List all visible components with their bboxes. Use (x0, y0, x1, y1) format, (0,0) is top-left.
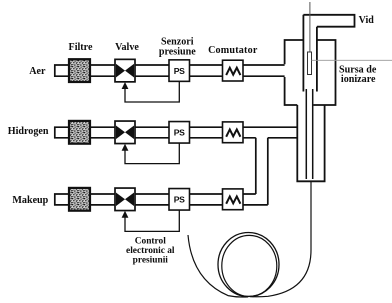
inner tube (306, 89, 312, 179)
source body box (285, 40, 336, 105)
svg-text:PS: PS (174, 66, 185, 76)
svg-text:presiune: presiune (159, 47, 196, 58)
svg-text:PS: PS (174, 128, 185, 138)
svg-text:Vid: Vid (359, 15, 375, 26)
svg-text:Hidrogen: Hidrogen (8, 126, 49, 137)
wire feedback row2 (125, 143, 179, 164)
chimney tube (303, 15, 317, 92)
svg-text:Makeup: Makeup (12, 195, 48, 206)
arrow into valve V2 (122, 144, 129, 151)
svg-text:Filtre: Filtre (69, 42, 93, 53)
svg-text:electronic al: electronic al (126, 246, 175, 256)
arrow into valve V1 (122, 82, 129, 89)
pressure sensor PS2 (169, 122, 190, 144)
pressure sensor PS3 (169, 189, 190, 211)
filter F1 (69, 59, 90, 82)
capillary electrode (309, 2, 311, 57)
svg-text:Valve: Valve (115, 42, 139, 53)
column inlet curve (188, 235, 248, 297)
valve V2 (115, 121, 135, 144)
jet nozzle (308, 52, 312, 75)
filter F2 (69, 121, 90, 144)
wire feedback row3 (125, 210, 179, 231)
switch S2 comutator (223, 122, 244, 143)
switch S1 comutator (223, 60, 244, 81)
arrow into valve V3 (122, 211, 129, 218)
valve V3 (115, 188, 135, 211)
svg-text:Control: Control (135, 236, 166, 246)
wire pipe row3 (55, 193, 268, 206)
svg-text:ionizare: ionizare (341, 74, 376, 85)
svg-text:presiunii: presiunii (133, 255, 169, 265)
switch S3 comutator (223, 189, 244, 210)
pressure sensor PS1 (169, 60, 190, 82)
wire pipe row1 (55, 64, 285, 77)
coil loop outer (218, 233, 279, 297)
valve V1 (115, 59, 135, 82)
svg-text:Comutator: Comutator (208, 45, 258, 56)
coil loop inner (222, 235, 277, 296)
lower body legs (297, 105, 324, 181)
filter F3 (69, 188, 90, 211)
leader line (312, 59, 392, 61)
wire feedback row1 (125, 81, 179, 102)
svg-text:Aer: Aer (29, 66, 46, 77)
vid duct (303, 15, 354, 27)
wire pipe row2 (55, 126, 297, 138)
svg-text:PS: PS (174, 195, 185, 205)
column downcomer (250, 181, 311, 296)
wire riser makeup-to-hydrogen (256, 138, 268, 205)
